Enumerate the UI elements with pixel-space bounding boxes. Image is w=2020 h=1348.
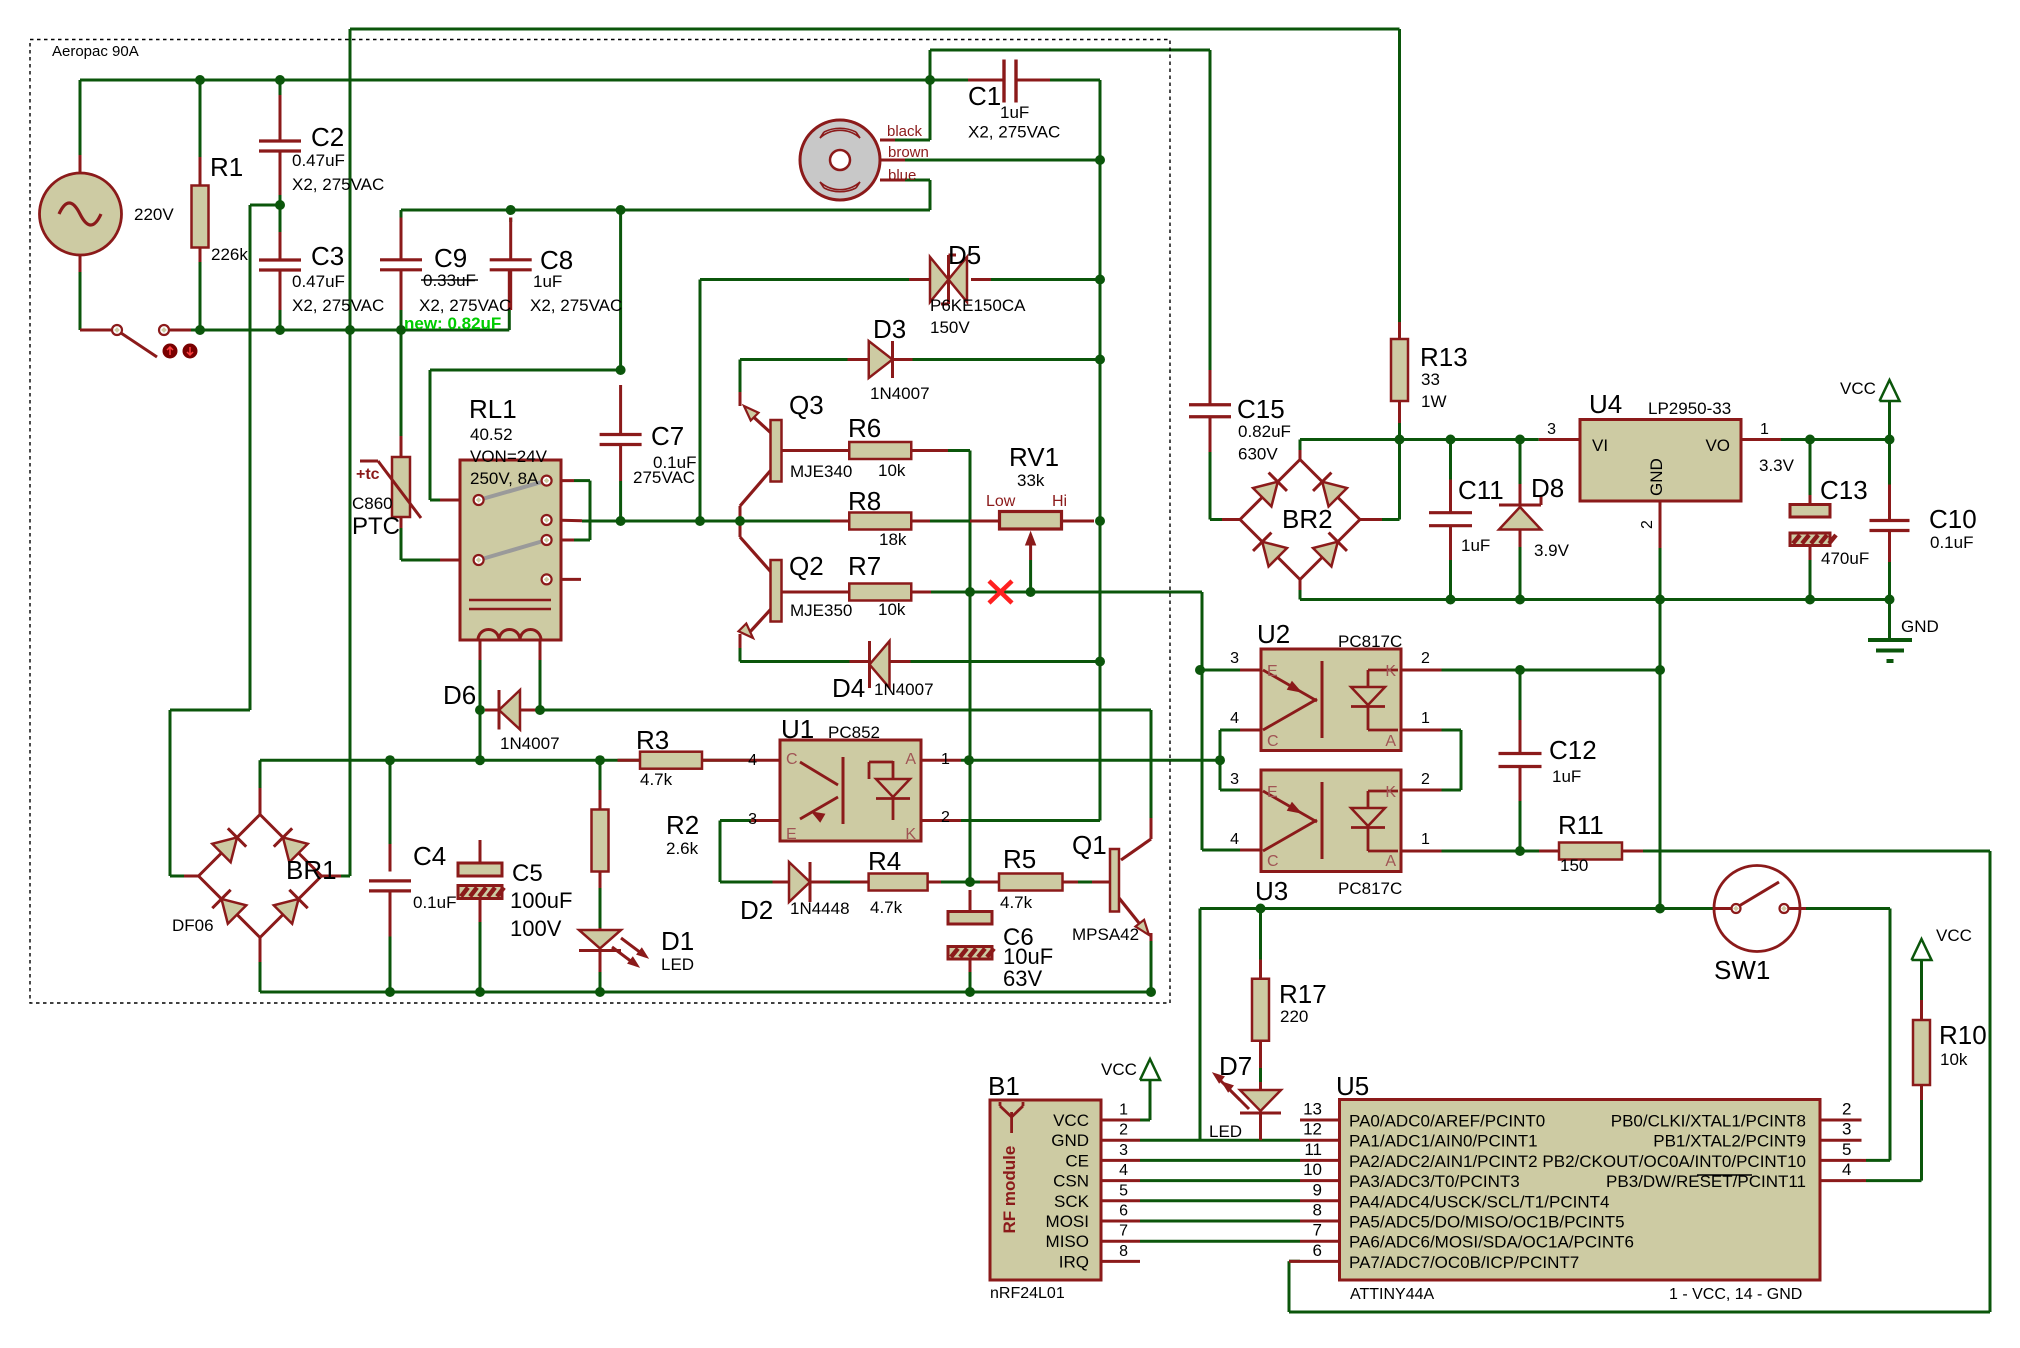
svg-text:10: 10 (1303, 1160, 1322, 1179)
svg-text:PC817C: PC817C (1338, 879, 1402, 898)
svg-text:brown: brown (888, 144, 929, 161)
svg-text:D1: D1 (661, 926, 694, 956)
svg-text:4: 4 (1230, 831, 1239, 848)
svg-text:A: A (1385, 733, 1396, 750)
svg-text:3: 3 (1230, 650, 1239, 667)
svg-text:13: 13 (1303, 1100, 1322, 1119)
svg-text:RF module: RF module (1000, 1146, 1019, 1234)
svg-text:2: 2 (941, 809, 950, 826)
svg-text:1: 1 (941, 751, 950, 768)
svg-text:CE: CE (1065, 1151, 1089, 1170)
svg-text:5: 5 (1119, 1182, 1128, 1199)
svg-text:VCC: VCC (1936, 926, 1972, 945)
svg-text:X2, 275VAC: X2, 275VAC (292, 296, 384, 315)
svg-text:BR1: BR1 (286, 855, 337, 885)
svg-text:4: 4 (1119, 1162, 1128, 1179)
svg-text:630V: 630V (1238, 445, 1278, 464)
svg-text:SW1: SW1 (1714, 955, 1770, 985)
svg-text:7: 7 (1313, 1221, 1322, 1240)
svg-text:U3: U3 (1255, 876, 1288, 906)
svg-text:C860: C860 (352, 494, 393, 513)
svg-text:C12: C12 (1549, 735, 1597, 765)
svg-text:3: 3 (1119, 1142, 1128, 1159)
svg-text:8: 8 (1313, 1201, 1322, 1220)
svg-text:R17: R17 (1279, 979, 1327, 1009)
svg-text:R10: R10 (1939, 1020, 1987, 1050)
svg-text:K: K (905, 826, 916, 843)
svg-text:R4: R4 (868, 846, 901, 876)
svg-text:R8: R8 (848, 486, 881, 516)
svg-text:D5: D5 (948, 240, 981, 270)
svg-text:R11: R11 (1558, 810, 1604, 840)
svg-text:11: 11 (1304, 1140, 1322, 1159)
svg-text:1uF: 1uF (533, 272, 562, 291)
svg-text:IRQ: IRQ (1059, 1252, 1089, 1271)
svg-text:4.7k: 4.7k (1000, 893, 1033, 912)
svg-text:DF06: DF06 (172, 916, 214, 935)
svg-text:LED: LED (1209, 1122, 1242, 1141)
svg-text:100uF: 100uF (510, 888, 572, 913)
svg-text:K: K (1385, 784, 1396, 801)
svg-text:1: 1 (1421, 831, 1430, 848)
svg-text:PA2/ADC2/AIN1/PCINT2: PA2/ADC2/AIN1/PCINT2 (1349, 1152, 1538, 1171)
svg-text:3: 3 (1230, 771, 1239, 788)
svg-text:C: C (1267, 853, 1279, 870)
svg-text:U5: U5 (1336, 1071, 1369, 1101)
svg-text:3: 3 (1842, 1120, 1851, 1139)
svg-text:2.6k: 2.6k (666, 839, 699, 858)
svg-text:GND: GND (1647, 458, 1666, 496)
svg-text:220V: 220V (134, 205, 174, 224)
svg-text:VON=24V: VON=24V (470, 447, 548, 466)
svg-text:D8: D8 (1531, 473, 1564, 503)
svg-text:40.52: 40.52 (470, 425, 513, 444)
svg-text:Q2: Q2 (789, 551, 824, 581)
svg-text:C11: C11 (1458, 475, 1504, 505)
svg-text:Aeropac 90A: Aeropac 90A (52, 43, 139, 60)
svg-text:GND: GND (1051, 1131, 1089, 1150)
svg-text:C13: C13 (1820, 475, 1868, 505)
svg-text:B1: B1 (988, 1071, 1020, 1101)
svg-text:6: 6 (1313, 1241, 1322, 1260)
svg-text:Low: Low (986, 493, 1016, 510)
svg-text:VO: VO (1705, 436, 1730, 455)
svg-text:new: 0.82uF: new: 0.82uF (404, 314, 501, 333)
svg-text:8: 8 (1119, 1243, 1128, 1260)
svg-text:MJE340: MJE340 (790, 462, 852, 481)
svg-text:1N4448: 1N4448 (790, 899, 850, 918)
svg-text:470uF: 470uF (1821, 549, 1869, 568)
svg-text:Q1: Q1 (1072, 830, 1107, 860)
svg-text:5: 5 (1842, 1140, 1851, 1159)
svg-text:150: 150 (1560, 856, 1588, 875)
svg-text:3.9V: 3.9V (1534, 541, 1570, 560)
svg-text:1: 1 (1421, 710, 1430, 727)
svg-text:1: 1 (1119, 1102, 1128, 1119)
svg-text:PB0/CLKI/XTAL1/PCINT8: PB0/CLKI/XTAL1/PCINT8 (1611, 1112, 1806, 1131)
svg-text:P6KE150CA: P6KE150CA (930, 296, 1026, 315)
svg-text:RV1: RV1 (1009, 442, 1059, 472)
svg-text:2: 2 (1842, 1100, 1851, 1119)
svg-text:1N4007: 1N4007 (870, 384, 930, 403)
svg-text:C3: C3 (311, 241, 344, 271)
svg-text:PA6/ADC6/MOSI/SDA/OC1A/PCINT6: PA6/ADC6/MOSI/SDA/OC1A/PCINT6 (1349, 1233, 1634, 1252)
svg-text:1 - VCC, 14 - GND: 1 - VCC, 14 - GND (1669, 1286, 1802, 1303)
svg-text:D7: D7 (1219, 1051, 1252, 1081)
svg-text:C15: C15 (1237, 394, 1285, 424)
svg-text:1N4007: 1N4007 (874, 680, 934, 699)
svg-text:LP2950-33: LP2950-33 (1648, 399, 1731, 418)
svg-text:U2: U2 (1257, 619, 1290, 649)
svg-text:MOSI: MOSI (1046, 1212, 1089, 1231)
svg-text:K: K (1385, 663, 1396, 680)
svg-text:X2, 275VAC: X2, 275VAC (530, 296, 622, 315)
svg-text:0.47uF: 0.47uF (292, 272, 345, 291)
svg-text:1uF: 1uF (1461, 536, 1490, 555)
svg-text:CSN: CSN (1053, 1172, 1089, 1191)
svg-text:0.82uF: 0.82uF (1238, 422, 1291, 441)
svg-text:A: A (1385, 853, 1396, 870)
svg-text:4: 4 (1230, 710, 1239, 727)
svg-text:4.7k: 4.7k (870, 898, 903, 917)
svg-text:LED: LED (661, 955, 694, 974)
svg-text:C7: C7 (651, 421, 684, 451)
svg-text:0.1uF: 0.1uF (1930, 533, 1973, 552)
svg-text:MJE350: MJE350 (790, 601, 852, 620)
svg-text:2: 2 (1421, 650, 1430, 667)
svg-text:PA5/ADC5/DO/MISO/OC1B/PCINT5: PA5/ADC5/DO/MISO/OC1B/PCINT5 (1349, 1213, 1625, 1232)
svg-text:1uF: 1uF (1552, 767, 1581, 786)
svg-text:4: 4 (1842, 1160, 1851, 1179)
svg-text:C5: C5 (512, 860, 543, 887)
svg-text:A: A (905, 751, 916, 768)
svg-text:R2: R2 (666, 810, 699, 840)
svg-text:10k: 10k (1940, 1050, 1968, 1069)
svg-text:2: 2 (1421, 771, 1430, 788)
svg-text:PB2/CKOUT/OC0A/INT0/PCINT10: PB2/CKOUT/OC0A/INT0/PCINT10 (1542, 1152, 1806, 1171)
svg-text:E: E (786, 826, 797, 843)
svg-text:GND: GND (1901, 617, 1939, 636)
svg-text:Q3: Q3 (789, 390, 824, 420)
svg-text:C: C (786, 751, 798, 768)
svg-text:33k: 33k (1017, 471, 1045, 490)
svg-text:150V: 150V (930, 318, 970, 337)
svg-text:R3: R3 (636, 725, 669, 755)
svg-text:Hi: Hi (1052, 493, 1067, 510)
svg-text:MISO: MISO (1046, 1232, 1089, 1251)
svg-text:C8: C8 (540, 245, 573, 275)
svg-text:1uF: 1uF (1000, 103, 1029, 122)
svg-text:63V: 63V (1003, 966, 1042, 991)
svg-text:VCC: VCC (1840, 379, 1876, 398)
svg-text:1W: 1W (1421, 392, 1447, 411)
svg-text:3.3V: 3.3V (1759, 456, 1795, 475)
svg-text:D6: D6 (443, 680, 476, 710)
svg-text:C2: C2 (311, 122, 344, 152)
svg-text:C9: C9 (434, 243, 467, 273)
svg-text:PA3/ADC3/T0/PCINT3: PA3/ADC3/T0/PCINT3 (1349, 1172, 1520, 1191)
svg-text:SCK: SCK (1054, 1192, 1090, 1211)
svg-text:+tc: +tc (356, 466, 380, 483)
svg-text:D4: D4 (832, 673, 865, 703)
svg-text:C1: C1 (968, 81, 1001, 111)
svg-text:R6: R6 (848, 413, 881, 443)
svg-text:MPSA42: MPSA42 (1072, 925, 1139, 944)
svg-text:0.1uF: 0.1uF (413, 893, 456, 912)
svg-text:PB1/XTAL2/PCINT9: PB1/XTAL2/PCINT9 (1653, 1132, 1806, 1151)
svg-text:PC817C: PC817C (1338, 632, 1402, 651)
svg-text:U1: U1 (781, 714, 814, 744)
svg-text:220: 220 (1280, 1007, 1308, 1026)
svg-text:7: 7 (1119, 1223, 1128, 1240)
svg-text:BR2: BR2 (1282, 504, 1333, 534)
svg-text:4: 4 (748, 752, 757, 769)
svg-text:E: E (1267, 784, 1278, 801)
svg-text:250V, 8A: 250V, 8A (470, 469, 539, 488)
svg-text:R7: R7 (848, 551, 881, 581)
svg-text:2: 2 (1639, 520, 1656, 529)
svg-text:VCC: VCC (1053, 1111, 1089, 1130)
svg-text:E: E (1267, 663, 1278, 680)
svg-text:275VAC: 275VAC (633, 468, 695, 487)
svg-text:blue: blue (888, 167, 916, 184)
svg-text:PA7/ADC7/OC0B/ICP/PCINT7: PA7/ADC7/OC0B/ICP/PCINT7 (1349, 1253, 1579, 1272)
svg-text:R13: R13 (1420, 342, 1468, 372)
svg-text:C4: C4 (413, 841, 446, 871)
svg-text:C10: C10 (1929, 504, 1977, 534)
svg-text:R5: R5 (1003, 844, 1036, 874)
svg-text:C: C (1267, 733, 1279, 750)
svg-text:0.47uF: 0.47uF (292, 151, 345, 170)
svg-text:RL1: RL1 (469, 394, 517, 424)
svg-text:D2: D2 (740, 895, 773, 925)
svg-text:3: 3 (1547, 421, 1556, 438)
svg-text:R1: R1 (210, 152, 243, 182)
svg-text:18k: 18k (879, 530, 907, 549)
svg-text:PC852: PC852 (828, 723, 880, 742)
svg-text:D3: D3 (873, 314, 906, 344)
svg-text:1: 1 (1760, 421, 1769, 438)
svg-text:VCC: VCC (1101, 1060, 1137, 1079)
svg-text:10k: 10k (878, 461, 906, 480)
svg-text:PA0/ADC0/AREF/PCINT0: PA0/ADC0/AREF/PCINT0 (1349, 1112, 1545, 1131)
svg-text:2: 2 (1119, 1122, 1128, 1139)
svg-text:ATTINY44A: ATTINY44A (1350, 1286, 1435, 1303)
svg-text:X2, 275VAC: X2, 275VAC (292, 175, 384, 194)
svg-text:U4: U4 (1589, 389, 1622, 419)
svg-text:black: black (887, 123, 923, 140)
svg-text:12: 12 (1303, 1120, 1322, 1139)
svg-text:6: 6 (1119, 1203, 1128, 1220)
svg-text:X2, 275VAC: X2, 275VAC (419, 296, 511, 315)
svg-text:X2, 275VAC: X2, 275VAC (968, 123, 1060, 142)
svg-text:VI: VI (1592, 436, 1608, 455)
svg-text:PA1/ADC1/AIN0/PCINT1: PA1/ADC1/AIN0/PCINT1 (1349, 1132, 1538, 1151)
svg-text:1N4007: 1N4007 (500, 734, 560, 753)
svg-text:100V: 100V (510, 916, 562, 941)
svg-text:PA4/ADC4/USCK/SCL/T1/PCINT4: PA4/ADC4/USCK/SCL/T1/PCINT4 (1349, 1192, 1609, 1211)
svg-text:4.7k: 4.7k (640, 770, 673, 789)
svg-text:33: 33 (1421, 370, 1440, 389)
svg-text:3: 3 (748, 811, 757, 828)
svg-text:226k: 226k (211, 245, 248, 264)
svg-text:9: 9 (1313, 1180, 1322, 1199)
svg-text:PTC: PTC (352, 513, 400, 540)
svg-text:10k: 10k (878, 600, 906, 619)
svg-text:nRF24L01: nRF24L01 (990, 1285, 1065, 1302)
